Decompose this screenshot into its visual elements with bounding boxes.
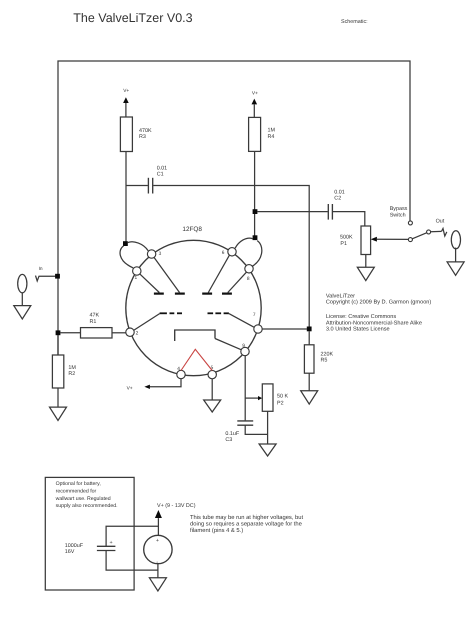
wire pin9 down	[244, 356, 246, 421]
resistor R5	[308, 331, 310, 345]
wire	[125, 152, 127, 242]
resistor R4	[249, 117, 261, 151]
svg-text:This tube may be run at higher: This tube may be run at higher voltages,…	[190, 514, 303, 521]
svg-text:P1: P1	[340, 241, 347, 247]
wire curl to pin 8	[252, 241, 261, 267]
pin 7	[254, 325, 262, 333]
svg-text:ValveLiTzer: ValveLiTzer	[326, 292, 355, 299]
pin 5	[208, 370, 216, 378]
ground	[204, 400, 221, 412]
wire curl to pin 6	[235, 238, 253, 248]
power V+ arrow left	[144, 385, 150, 389]
wire cap bottom	[106, 551, 158, 571]
wire pin4 to V+	[150, 379, 181, 387]
jack J2 Out	[451, 231, 460, 249]
wire	[21, 293, 23, 306]
svg-text:Attribution-Noncommercial-Shar: Attribution-Noncommercial-Share Alike	[326, 319, 422, 326]
pin 2	[126, 328, 134, 336]
svg-text:recommended for: recommended for	[56, 489, 97, 495]
battery option box	[45, 477, 134, 590]
wire bypass loop top/left/right	[58, 61, 410, 355]
svg-text:In: In	[39, 266, 43, 272]
pin 3	[147, 250, 155, 258]
plate 1b lead	[154, 258, 179, 293]
pin 4	[177, 370, 185, 378]
svg-text:+: +	[156, 538, 159, 544]
svg-text:V+ (9 - 13V DC): V+ (9 - 13V DC)	[157, 503, 196, 509]
pot P2 wiper	[245, 397, 258, 399]
svg-text:R2: R2	[68, 371, 75, 377]
svg-text:R1: R1	[90, 319, 97, 325]
svg-text:1: 1	[135, 275, 138, 281]
wire C3 to P2 bottom	[245, 425, 267, 434]
svg-text:C2: C2	[334, 196, 341, 202]
svg-text:License: Creative Commons: License: Creative Commons	[326, 313, 396, 320]
svg-text:wallwart use. Regulated: wallwart use. Regulated	[56, 496, 111, 502]
ground	[447, 262, 464, 275]
resistor R3	[120, 117, 132, 152]
svg-text:47K: 47K	[90, 313, 100, 319]
grid 2 lead	[229, 314, 255, 328]
svg-text:+: +	[110, 540, 113, 546]
svg-text:V+: V+	[123, 88, 129, 94]
wire C1 to grid2 net	[153, 186, 309, 329]
wire	[455, 248, 457, 262]
wire cap top	[106, 526, 158, 546]
plate 1a lead	[140, 274, 159, 292]
svg-text:V+: V+	[127, 385, 133, 391]
pot P2	[262, 384, 273, 411]
svg-text:3: 3	[159, 251, 162, 257]
svg-text:500K: 500K	[340, 234, 353, 240]
ground	[357, 267, 374, 280]
wire C2 to P1	[333, 212, 365, 226]
svg-text:3.0 United States License: 3.0 United States License	[326, 326, 390, 333]
svg-text:R4: R4	[268, 134, 275, 140]
wire to ground	[157, 564, 159, 578]
svg-text:C1: C1	[157, 172, 164, 178]
svg-text:C3: C3	[225, 437, 232, 443]
svg-text:Bypass: Bypass	[390, 206, 408, 212]
svg-text:1M: 1M	[68, 365, 76, 371]
svg-text:Switch: Switch	[390, 212, 406, 218]
svg-text:Copyright (c) 2009 By D. Garmo: Copyright (c) 2009 By D. Garmon (gmoon)	[326, 298, 432, 305]
ground	[259, 444, 276, 456]
svg-text:50 K: 50 K	[277, 394, 288, 400]
svg-text:P2: P2	[277, 401, 284, 407]
node In hook	[36, 276, 58, 281]
grid 2	[208, 312, 214, 314]
svg-text:8: 8	[247, 276, 250, 282]
svg-text:6: 6	[222, 250, 225, 256]
svg-text:1M: 1M	[268, 128, 276, 134]
svg-text:4: 4	[177, 366, 180, 372]
junction in	[55, 274, 60, 279]
filament F red	[181, 349, 212, 370]
ground	[14, 306, 31, 319]
svg-text:R3: R3	[139, 134, 146, 140]
grid 1	[160, 312, 167, 314]
svg-text:7: 7	[253, 312, 256, 318]
tube V1 12FQ8 envelope	[126, 240, 261, 375]
capacitor C3	[237, 420, 253, 422]
cathode	[175, 330, 215, 341]
svg-text:16V: 16V	[65, 549, 75, 555]
plate 2a lead	[208, 255, 229, 292]
grid 1 lead	[134, 314, 160, 331]
wire pin5 to ground	[211, 379, 213, 400]
svg-text:12FQ8: 12FQ8	[182, 226, 202, 233]
wire P2 to ground	[267, 411, 269, 444]
ground	[301, 391, 318, 404]
svg-text:V+: V+	[252, 91, 258, 97]
plate 2b	[222, 293, 232, 295]
jack J1 In	[18, 274, 27, 292]
svg-text:2: 2	[136, 331, 139, 337]
capacitor C2	[257, 211, 328, 213]
plate 1a	[154, 293, 164, 295]
battery B1 supply circle	[144, 535, 172, 563]
pot P1 wiper	[371, 237, 377, 242]
wire P1 to ground	[365, 255, 367, 268]
pin 1	[133, 267, 141, 275]
svg-text:The ValveLiTzer V0.3: The ValveLiTzer V0.3	[73, 11, 192, 25]
pin 9	[241, 347, 249, 355]
junction r1	[56, 330, 61, 335]
svg-text:doing so requires a separate v: doing so requires a separate voltage for…	[190, 520, 302, 527]
svg-text:Schematic:: Schematic:	[341, 19, 368, 25]
junction plate1	[123, 241, 128, 246]
pin 8	[245, 265, 253, 273]
pin 6	[228, 248, 236, 256]
wire pin7 to junction	[262, 328, 307, 330]
wire curl to pin 3	[128, 242, 149, 251]
svg-text:0.1uF: 0.1uF	[225, 431, 239, 437]
svg-text:R5: R5	[321, 357, 328, 363]
svg-text:supply also recommended.: supply also recommended.	[56, 503, 118, 509]
plate 2b lead	[228, 272, 247, 292]
svg-text:filament (pins 4 & 5.): filament (pins 4 & 5.)	[190, 527, 243, 534]
junction grid2	[307, 327, 312, 332]
capacitor C1	[126, 185, 148, 187]
svg-text:Optional for battery,: Optional for battery,	[56, 481, 101, 487]
svg-text:Out: Out	[436, 219, 445, 225]
junction plate2 pins	[253, 235, 258, 240]
ground	[50, 407, 67, 420]
wire	[254, 151, 256, 236]
svg-text:470K: 470K	[139, 128, 152, 134]
ground	[149, 578, 166, 591]
cathode lead	[215, 339, 241, 350]
plate 1b	[175, 293, 185, 295]
plate 2a	[202, 293, 212, 295]
node Out hook	[442, 229, 447, 237]
svg-text:9: 9	[242, 343, 245, 349]
junction plate2/C2	[253, 209, 258, 214]
pot P1	[361, 226, 371, 255]
resistor R1	[60, 332, 81, 334]
resistor R2	[57, 335, 59, 355]
wire curl to pin 1	[120, 246, 133, 268]
svg-text:0.01: 0.01	[334, 190, 345, 196]
wire to out jack	[431, 230, 442, 232]
